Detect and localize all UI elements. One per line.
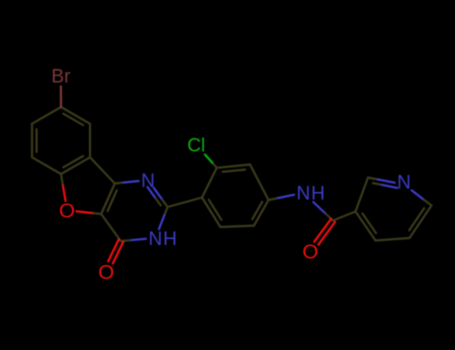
svg-text:Cl: Cl — [187, 136, 205, 157]
svg-text:H: H — [163, 229, 177, 250]
svg-text:O: O — [98, 261, 114, 284]
svg-text:O: O — [302, 241, 318, 264]
svg-text:N: N — [149, 229, 163, 250]
svg-text:Br: Br — [51, 67, 71, 88]
svg-text:O: O — [59, 200, 75, 223]
svg-text:H: H — [311, 184, 325, 205]
svg-text:N: N — [141, 171, 155, 192]
svg-text:N: N — [397, 173, 411, 194]
svg-text:N: N — [297, 184, 311, 205]
